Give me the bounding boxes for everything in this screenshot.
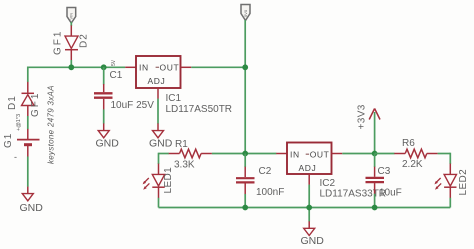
op-amp / regulator IC1: [136, 56, 181, 88]
supply +3V3 symbol: [369, 109, 380, 154]
svg-text:IN: IN: [139, 62, 149, 72]
svg-text:keystone 2479 3xAA: keystone 2479 3xAA: [47, 85, 56, 164]
wire ADJ to GND: [157, 99, 159, 124]
svg-text:C3: C3: [378, 166, 391, 177]
svg-text:+@1*3: +@1*3: [16, 114, 22, 131]
wire LED1 to bottom rail: [158, 198, 160, 208]
diode D2: [65, 25, 78, 60]
junction ADJ2 / bottom rail: [306, 205, 312, 211]
svg-text:GND: GND: [149, 138, 173, 150]
wire ADJ2 down across bottom rail: [308, 185, 310, 222]
junction at D2 / top rail: [68, 64, 74, 70]
svg-text:G1: G1: [3, 133, 14, 148]
wire R1 to C2 junction: [212, 153, 277, 155]
wire pin1 to D2: [70, 22, 72, 26]
svg-text:ADJ: ADJ: [148, 76, 166, 86]
svg-text:OUT: OUT: [160, 62, 180, 72]
emission arrows: [144, 178, 149, 183]
svg-text:LED1: LED1: [163, 167, 174, 194]
wire top rail: [28, 66, 125, 68]
op-amp / regulator IC2: [287, 143, 332, 175]
diode D1: [22, 82, 35, 116]
pin IC1 ADJ stub: [157, 88, 159, 99]
svg-text:5V: 5V: [111, 59, 117, 66]
svg-text:2.2K: 2.2K: [402, 159, 423, 170]
svg-text:100nF: 100nF: [256, 187, 284, 198]
wire C1 to GND: [103, 109, 105, 123]
junction C3 / bottom rail: [372, 205, 378, 211]
svg-text:10uF 25V: 10uF 25V: [111, 100, 155, 111]
wire battery to GND: [27, 157, 29, 187]
ground (IC2 ADJ): [301, 221, 325, 247]
ground (C1): [96, 123, 120, 149]
pin IC2 ADJ stub: [308, 174, 310, 185]
ground (battery): [20, 187, 44, 214]
svg-text:C1: C1: [110, 70, 123, 81]
junction 3V3 / mid rail: [372, 151, 378, 157]
capacitor C3: [366, 154, 385, 208]
wire D1 to battery: [27, 116, 29, 129]
svg-text:GND: GND: [301, 235, 325, 247]
svg-text:+3V3: +3V3: [357, 104, 368, 129]
junction IC1 OUT / 5V column: [242, 64, 248, 70]
svg-text:GF1: GF1: [30, 92, 41, 117]
pin IC1 OUT stub: [181, 66, 192, 68]
svg-text:D2: D2: [79, 33, 90, 48]
svg-text:IN: IN: [290, 149, 300, 159]
junction at C1 / top rail: [101, 64, 107, 70]
svg-text:OUT: OUT: [310, 149, 330, 159]
svg-text:LD117AS50TR: LD117AS50TR: [166, 104, 233, 115]
wire IC1 OUT to 5V node: [191, 66, 245, 68]
pin IC2 IN stub: [276, 153, 287, 155]
svg-text:LED2: LED2: [458, 169, 469, 196]
supply pin VIN (top left connector head): [67, 8, 76, 24]
wire LED2 to bottom rail: [449, 198, 451, 208]
resistor R6: [375, 149, 451, 158]
wire LED2 branch drop: [449, 153, 451, 164]
svg-text:R6: R6: [402, 138, 415, 149]
LED LED2: [434, 164, 456, 198]
resistor R1: [169, 149, 212, 158]
svg-text:ADJ: ADJ: [299, 163, 317, 173]
svg-text:5V0: 5V0: [243, 9, 248, 17]
svg-text:GF1: GF1: [53, 30, 64, 55]
svg-text:IC1: IC1: [166, 93, 182, 104]
svg-text:GND: GND: [96, 138, 120, 150]
svg-text:D1: D1: [7, 95, 18, 110]
svg-text:LD117AS33TR: LD117AS33TR: [320, 189, 387, 200]
capacitor C2: [236, 154, 255, 208]
svg-text:R1: R1: [175, 139, 188, 150]
supply pin 5V (top middle connector head): [241, 5, 250, 21]
node 5V mid rail: LED1 corner to IC2 IN: [159, 153, 169, 155]
ground (IC1 ADJ): [149, 123, 173, 149]
junction C2 / mid rail: [242, 151, 248, 157]
svg-text:IC2: IC2: [320, 178, 336, 189]
wire C1 junction to IC1 IN: [125, 66, 136, 68]
capacitor C1: [94, 67, 113, 110]
svg-text:C2: C2: [259, 166, 272, 177]
svg-text:GND: GND: [20, 202, 44, 214]
svg-text:10uF: 10uF: [379, 188, 402, 199]
wire IC2 OUT to 3V3 node: [342, 153, 374, 155]
wire LED1 branch drop: [158, 153, 160, 164]
LED LED1: [143, 164, 165, 198]
svg-text:-: -: [14, 152, 17, 162]
junction C2 / bottom rail: [242, 205, 248, 211]
wire bottom rail: [159, 207, 451, 209]
wire left drop to D1: [27, 67, 29, 83]
emission arrows: [435, 178, 440, 183]
svg-text:VIN: VIN: [69, 13, 74, 20]
wire D2 to top rail: [70, 60, 72, 67]
battery G1: [17, 129, 40, 157]
wire pin2 down to 5V rail: [244, 20, 246, 154]
svg-text:3.3K: 3.3K: [174, 160, 195, 171]
pin IC2 OUT stub: [332, 153, 343, 155]
